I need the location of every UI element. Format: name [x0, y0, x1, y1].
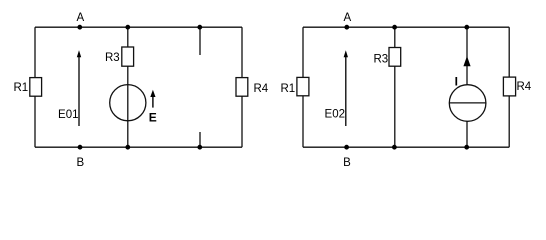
current source I (circle with horizontal bar, right circuit)	[449, 85, 486, 122]
node B (left circuit)	[76, 145, 84, 169]
junction current source branch bottom (right circuit)	[464, 145, 469, 150]
svg-text:E01: E01	[58, 109, 78, 121]
svg-text:I: I	[455, 75, 458, 89]
svg-text:B: B	[343, 157, 351, 169]
svg-text:A: A	[343, 12, 351, 24]
wire current source branch top (right circuit)	[466, 27, 468, 85]
wire stub top (open branch, left circuit)	[199, 27, 201, 55]
voltage source E (circle, left circuit)	[110, 85, 146, 121]
svg-text:B: B	[76, 157, 84, 169]
node A (left circuit)	[76, 12, 84, 30]
resistor R3 (left circuit)	[105, 47, 134, 66]
wire left side (left circuit)	[34, 27, 36, 147]
wire R3 branch (right circuit)	[394, 27, 396, 147]
wire right side (right circuit)	[508, 27, 510, 147]
arrow I (current direction arrow on branch)	[455, 56, 471, 89]
resistor R1 (right circuit)	[281, 77, 309, 95]
svg-text:R4: R4	[254, 83, 269, 95]
resistor R4 (right circuit)	[503, 77, 531, 96]
arrow E01 (branch voltage arrow, left circuit)	[58, 50, 81, 126]
junction R3 branch top (right circuit)	[392, 25, 397, 30]
wire middle branch (left circuit, E/R3 branch)	[127, 27, 129, 147]
svg-text:R3: R3	[105, 52, 120, 64]
svg-text:R1: R1	[281, 83, 296, 95]
junction middle branch bottom (left circuit)	[125, 145, 130, 150]
svg-text:R3: R3	[374, 54, 389, 66]
resistor R4 (left circuit)	[236, 78, 269, 97]
junction stub top (left circuit)	[197, 25, 202, 30]
junction stub bottom (left circuit)	[197, 145, 202, 150]
resistor R3 (right circuit)	[374, 48, 401, 67]
svg-text:E: E	[149, 111, 157, 125]
svg-text:R1: R1	[14, 82, 29, 94]
arrow E (EMF direction arrow beside source)	[149, 90, 157, 125]
wire bottom (left circuit)	[35, 146, 242, 148]
svg-text:A: A	[76, 12, 84, 24]
arrow E02 (branch voltage arrow, right circuit)	[325, 50, 348, 126]
wire current source branch bottom (right circuit)	[466, 121, 468, 147]
node A (right circuit)	[343, 12, 351, 30]
resistor R1 (left circuit)	[14, 78, 42, 97]
wire bottom (right circuit)	[303, 146, 509, 148]
junction middle branch top (left circuit)	[125, 25, 130, 30]
wire top (right circuit)	[303, 26, 509, 28]
svg-text:R4: R4	[517, 81, 532, 93]
wire top (left circuit)	[35, 26, 242, 28]
node B (right circuit)	[343, 145, 351, 169]
svg-text:E02: E02	[325, 109, 345, 121]
wire left side (right circuit)	[302, 27, 304, 147]
wire stub bottom (open branch, left circuit)	[199, 132, 201, 147]
wire right side (left circuit)	[241, 27, 243, 147]
junction current source branch top (right circuit)	[464, 25, 469, 30]
junction R3 branch bottom (right circuit)	[392, 145, 397, 150]
